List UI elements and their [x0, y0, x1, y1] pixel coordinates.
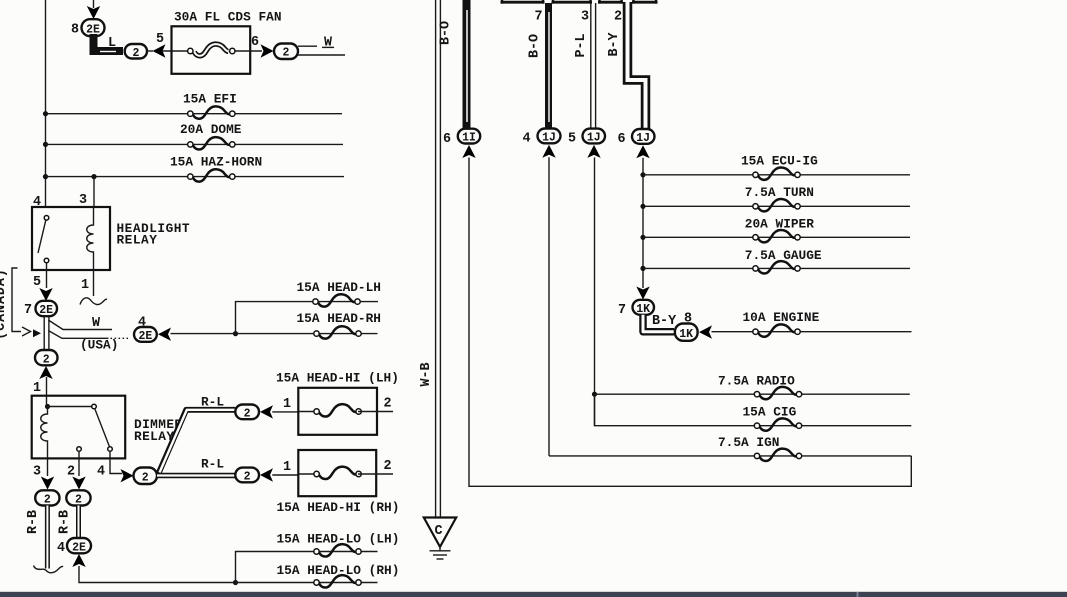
- svg-text:R-L: R-L: [201, 394, 224, 409]
- relay coil: [87, 207, 94, 270]
- wire from head fuses: [171, 333, 236, 335]
- svg-text:15A HEAD-LO (RH): 15A HEAD-LO (RH): [277, 563, 400, 578]
- wire 7.5A GAUGE row: [643, 267, 910, 269]
- wire pin3 down: [47, 458, 49, 476]
- dotted tail usa: [111, 337, 129, 339]
- branch W wire: [48, 320, 112, 330]
- wire into fuse box: [162, 50, 188, 52]
- svg-text:7.5A TURN: 7.5A TURN: [745, 185, 814, 200]
- connector 1J (4): [538, 129, 561, 144]
- wire pin1 down: [93, 270, 95, 296]
- wire main bus left: [45, 0, 47, 207]
- wire lower out: [298, 54, 345, 56]
- branch USA wire: [48, 331, 108, 339]
- fuse 7.5A RADIO: [754, 387, 801, 399]
- svg-text:R-B: R-B: [26, 510, 41, 534]
- svg-text:15A HEAD-LH: 15A HEAD-LH: [297, 280, 381, 295]
- fuse 7.5A TURN: [753, 199, 800, 211]
- svg-text:15A ECU-IG: 15A ECU-IG: [741, 153, 818, 168]
- wire W underline: [322, 46, 334, 48]
- fuse 20A DOME: [188, 137, 235, 149]
- wire HEAD-RH row: [236, 333, 378, 335]
- bracket canada pointer: [12, 268, 21, 332]
- connector 2E head-lo: [67, 538, 91, 553]
- ground triangle C: [424, 518, 456, 547]
- arrow up into 1J (4): [542, 145, 555, 158]
- svg-text:B-O: B-O: [439, 21, 454, 45]
- svg-text:1K: 1K: [636, 303, 650, 316]
- wire coil branch down: [93, 177, 95, 207]
- arrow left into 2E usa: [158, 328, 171, 341]
- arrow into 2E canada: [39, 288, 52, 301]
- squiggle pin1: [80, 298, 107, 305]
- wire 1J4 drop to IGN row: [548, 157, 550, 456]
- svg-text:2: 2: [244, 470, 251, 483]
- ground symbol: [439, 547, 441, 551]
- svg-text:2: 2: [384, 459, 392, 474]
- wire 7.5A TURN row: [643, 205, 910, 207]
- fuse 30A fusible link: [188, 44, 235, 56]
- fuse box HEAD-HI LH: [298, 388, 377, 435]
- footer bar: [0, 592, 1067, 597]
- dimmer coil: [41, 407, 48, 459]
- junction dot head: [233, 331, 238, 336]
- dimmer junction dot: [45, 404, 50, 409]
- wire 15A ECU-IG row: [643, 174, 910, 176]
- svg-text:2E: 2E: [72, 541, 86, 554]
- svg-text:20A WIPER: 20A WIPER: [745, 217, 814, 232]
- connector 1J (6): [632, 129, 655, 144]
- connector 2 pin4: [134, 468, 158, 485]
- svg-text:10A ENGINE: 10A ENGINE: [743, 310, 820, 325]
- svg-text:15A HAZ-HORN: 15A HAZ-HORN: [170, 154, 262, 169]
- arrow left into 2 hi rh: [260, 468, 273, 481]
- junction dot coil branch: [91, 174, 96, 179]
- arrow down into 1K (7): [636, 287, 649, 300]
- svg-text:6: 6: [443, 132, 451, 147]
- svg-text:B-Y: B-Y: [652, 314, 677, 329]
- wire feed connector 2E top: [93, 0, 95, 8]
- svg-text:W-B: W-B: [419, 362, 434, 386]
- connector 1J (5): [583, 129, 606, 144]
- relay switch contact bottom: [44, 258, 49, 263]
- svg-text:1: 1: [81, 278, 89, 293]
- svg-text:2: 2: [142, 472, 149, 485]
- dimmer switch wire to contact: [48, 406, 92, 408]
- svg-text:30A FL CDS FAN: 30A FL CDS FAN: [174, 10, 282, 25]
- fuse 15A ECU-IG: [753, 167, 800, 179]
- connector 2E usa: [134, 327, 157, 342]
- svg-text:3: 3: [79, 193, 87, 208]
- svg-text:1J: 1J: [587, 132, 601, 145]
- svg-text:7.5A GAUGE: 7.5A GAUGE: [745, 248, 822, 263]
- wire double 2E to 2: [43, 316, 45, 350]
- wire B-Y link 1K to 1K: [643, 315, 674, 332]
- arrow up into 1J (5): [587, 145, 600, 158]
- arrow up into 2: [39, 366, 52, 379]
- fuse 15A EFI: [188, 106, 235, 118]
- svg-text:1: 1: [283, 460, 291, 475]
- fuse 15A HAZ-HORN: [188, 169, 235, 181]
- wire B-Y thick outlined: [628, 2, 646, 129]
- svg-text:7.5A RADIO: 7.5A RADIO: [718, 374, 795, 389]
- svg-text:2: 2: [43, 353, 50, 366]
- fuse 15A HEAD-HI RH: [314, 467, 361, 479]
- arrow up into 2E head-lo: [72, 554, 85, 567]
- wire B-O thick left: [463, 0, 471, 129]
- squiggle R-B end: [34, 566, 64, 573]
- svg-text:2: 2: [283, 47, 290, 60]
- headlight relay box: [32, 207, 110, 270]
- wire out right rh: [358, 473, 393, 475]
- wire pin4: [110, 451, 122, 473]
- connector 2 (right of 30A fuse): [274, 44, 298, 60]
- svg-text:2: 2: [244, 407, 251, 420]
- svg-text:(CANADA): (CANADA): [0, 268, 9, 340]
- svg-text:4: 4: [57, 541, 65, 556]
- svg-text:4: 4: [523, 132, 531, 147]
- wire to HI RH box: [272, 474, 298, 476]
- svg-text:6: 6: [251, 35, 259, 50]
- svg-text:L: L: [108, 36, 116, 51]
- svg-text:20A DOME: 20A DOME: [180, 122, 242, 137]
- svg-text:1K: 1K: [679, 328, 693, 341]
- junction dot EFI: [43, 111, 48, 116]
- fuse 20A WIPER: [753, 230, 800, 242]
- wire R-L lower thick: [157, 473, 235, 479]
- svg-text:1I: 1I: [462, 132, 476, 145]
- arrow right into 2 pin4: [121, 469, 134, 482]
- connector 1I: [458, 129, 480, 144]
- wire up to LO LH row: [236, 552, 378, 583]
- svg-text:5: 5: [156, 32, 164, 47]
- fuse 10A ENGINE: [753, 324, 800, 336]
- svg-text:15A HEAD-LO (LH): 15A HEAD-LO (LH): [277, 531, 400, 546]
- svg-text:7: 7: [24, 303, 32, 318]
- junction dot WIPER: [640, 235, 645, 240]
- top connector box bottom edge: [501, 1, 658, 4]
- wire 20A DOME row: [46, 143, 344, 145]
- dimmer relay box: [32, 396, 126, 459]
- open arrow canada: [22, 327, 31, 336]
- svg-text:1J: 1J: [636, 132, 650, 145]
- svg-text:15A EFI: 15A EFI: [183, 92, 237, 107]
- svg-text:2E: 2E: [39, 304, 53, 317]
- wire 7.5A IGN row: [549, 455, 911, 457]
- svg-text:R-B: R-B: [58, 510, 73, 534]
- connector 2E canada: [36, 301, 58, 316]
- fuse 15A HEAD-LO RH: [314, 575, 361, 587]
- svg-text:2: 2: [75, 494, 82, 507]
- fuse 15A HEAD-RH: [314, 326, 361, 338]
- fuse 7.5A IGN: [754, 449, 801, 461]
- relay switch contact top: [44, 216, 49, 221]
- wire R-B left thick: [45, 506, 50, 569]
- arrow up into 1J (6): [636, 145, 649, 158]
- wire up to HEAD-LH row: [236, 302, 379, 334]
- wire LO RH row: [236, 582, 378, 584]
- filled arrow canada: [33, 329, 41, 337]
- connector 2E top: [82, 19, 105, 36]
- connector 2 (left of 30A fuse): [125, 44, 147, 59]
- dimmer switch blade: [95, 409, 110, 447]
- arrow left into 2: [153, 44, 166, 57]
- svg-text:2: 2: [44, 494, 51, 507]
- svg-text:C: C: [435, 524, 443, 539]
- wire to dimmer pin1: [46, 377, 48, 407]
- svg-text:8: 8: [71, 23, 79, 38]
- wire 15A HAZ-HORN row: [46, 176, 345, 178]
- svg-text:2: 2: [614, 10, 622, 25]
- svg-text:6: 6: [618, 132, 626, 147]
- svg-text:R-L: R-L: [201, 457, 224, 472]
- arrow right into 2: [261, 44, 274, 57]
- svg-text:2: 2: [133, 47, 140, 60]
- svg-text:RELAY: RELAY: [117, 233, 158, 248]
- wire P-L double: [590, 3, 592, 129]
- svg-text:3: 3: [33, 465, 41, 480]
- junction dot RADIO: [592, 392, 597, 397]
- svg-text:5: 5: [568, 132, 576, 147]
- wire inside box rh: [298, 473, 317, 475]
- svg-text:15A CIG: 15A CIG: [743, 405, 797, 420]
- wire 1J5 drop: [594, 157, 596, 425]
- wire pin5 down: [46, 263, 48, 288]
- wire B-O thick mid: [545, 3, 552, 129]
- junction dot HAZ: [43, 174, 48, 179]
- wire 10A ENGINE row: [712, 331, 912, 333]
- svg-text:4: 4: [97, 465, 105, 480]
- connector 2 pin3: [35, 490, 59, 505]
- wire pin2 down: [78, 451, 80, 476]
- connector 2 pin2: [66, 490, 90, 505]
- svg-text:2E: 2E: [138, 330, 152, 343]
- connector 2 above dimmer: [35, 350, 58, 365]
- fuse 15A CIG: [754, 418, 801, 430]
- wire 1J6 drop: [642, 158, 644, 288]
- wire 1I drop to bottom loop: [469, 158, 911, 487]
- wire R-B right thick: [76, 506, 81, 539]
- svg-text:7.5A IGN: 7.5A IGN: [718, 435, 779, 450]
- svg-text:1: 1: [33, 381, 41, 396]
- svg-text:5: 5: [33, 275, 41, 290]
- wire 15A CIG row: [595, 394, 912, 426]
- fuse 15A HEAD-LO LH: [314, 544, 361, 556]
- fuse 15A HEAD-HI LH: [314, 404, 361, 416]
- dimmer contact pin4: [108, 447, 113, 452]
- connector 2 head-hi rh: [235, 468, 259, 483]
- wire W upper: [298, 45, 317, 47]
- arrow left into 2 hi lh: [260, 405, 273, 418]
- svg-text:15A HEAD-HI (RH): 15A HEAD-HI (RH): [277, 500, 400, 515]
- wire out of fuse box: [235, 50, 263, 52]
- svg-text:1: 1: [283, 397, 291, 412]
- svg-text:RELAY: RELAY: [134, 429, 174, 444]
- arrow up into 1I: [462, 145, 475, 158]
- relay switch blade: [38, 220, 46, 253]
- wire 15A EFI row: [46, 113, 343, 115]
- svg-text:B-O: B-O: [528, 34, 543, 58]
- wire to arrow: [147, 50, 153, 52]
- connector 2 head-hi lh: [235, 405, 259, 420]
- svg-text:7: 7: [618, 303, 626, 318]
- svg-text:W: W: [324, 36, 333, 51]
- junction dot ECU-IG: [640, 172, 645, 177]
- wire out right lh: [358, 411, 393, 413]
- wire 7.5A RADIO row: [595, 393, 910, 395]
- connector 1K (7): [633, 300, 655, 315]
- wire thick L from 2E to junction 2: [94, 34, 124, 51]
- arrow down into 2 pin2: [72, 477, 85, 490]
- svg-text:B-Y: B-Y: [607, 31, 622, 56]
- svg-text:15A HEAD-RH: 15A HEAD-RH: [297, 311, 381, 326]
- footer separator: [857, 592, 859, 597]
- wire to HI LH box: [272, 411, 298, 413]
- junction dot head-lo: [233, 580, 238, 585]
- wire 20A WIPER row: [643, 236, 910, 238]
- svg-text:7: 7: [535, 10, 543, 25]
- connector 1K (8): [675, 324, 698, 341]
- fuse 15A HEAD-LH: [313, 294, 360, 306]
- junction dot TURN: [640, 204, 645, 209]
- arrow left into 1K (8): [699, 325, 712, 338]
- fuse box 30A FL CDS FAN: [172, 26, 251, 74]
- junction dot DOME: [43, 142, 48, 147]
- fuse box HEAD-HI RH: [298, 450, 376, 496]
- arrow into 2E top: [87, 6, 100, 19]
- svg-text:W: W: [92, 316, 101, 331]
- svg-text:P-L: P-L: [574, 33, 589, 57]
- fuse 7.5A GAUGE: [753, 261, 800, 273]
- junction dot GAUGE: [640, 266, 645, 271]
- wire W-B double: [435, 0, 437, 518]
- svg-text:(USA): (USA): [80, 338, 118, 353]
- dimmer contact pin2: [77, 447, 82, 452]
- dimmer switch contact pivot: [92, 404, 97, 409]
- wire inside box lh: [298, 411, 317, 413]
- arrow down into 2 pin3: [41, 477, 54, 490]
- svg-text:15A HEAD-HI (LH): 15A HEAD-HI (LH): [276, 370, 399, 385]
- wire R-L upper thick: [159, 410, 236, 474]
- svg-text:2: 2: [384, 396, 392, 411]
- wire head-lo feed: [79, 566, 236, 583]
- svg-text:1J: 1J: [542, 132, 556, 145]
- svg-text:3: 3: [581, 10, 589, 25]
